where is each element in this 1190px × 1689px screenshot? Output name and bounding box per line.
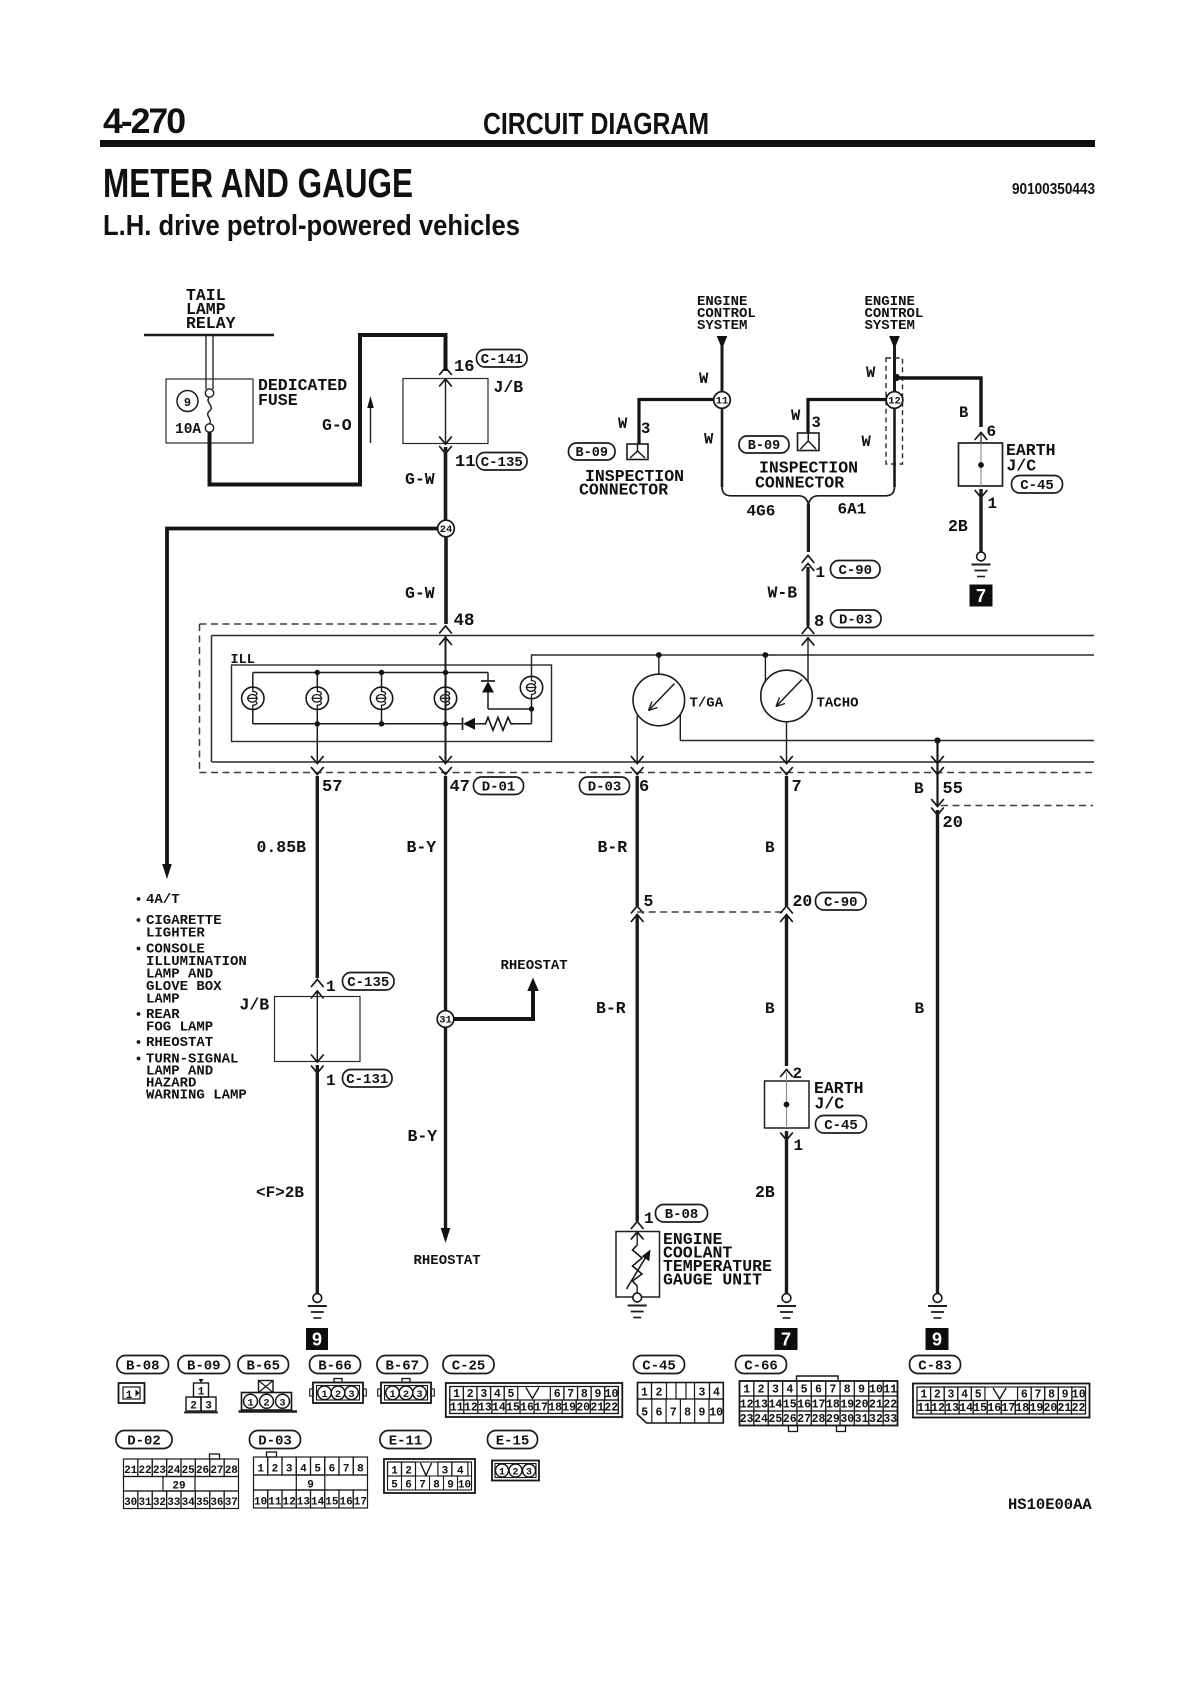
dedicated fuse box <box>166 379 253 443</box>
wire B-R below C-90 <box>636 916 639 1221</box>
svg-text:B-09: B-09 <box>748 439 780 454</box>
svg-text:5: 5 <box>314 1464 321 1476</box>
svg-text:31: 31 <box>855 1413 869 1426</box>
svg-text:90100350443: 90100350443 <box>1012 181 1095 198</box>
C-131 exit arrows <box>311 1055 324 1063</box>
svg-text:9: 9 <box>698 1407 705 1420</box>
svg-text:35: 35 <box>196 1497 210 1509</box>
svg-text:4G6: 4G6 <box>747 503 776 521</box>
wire G-W from J/B to node 24 <box>444 447 448 521</box>
svg-text:B: B <box>765 839 775 857</box>
svg-text:T/GA: T/GA <box>690 696 724 712</box>
svg-text:W: W <box>704 431 714 449</box>
svg-text:C-90: C-90 <box>824 895 858 911</box>
J/B exit arrows C-135 <box>439 437 452 445</box>
connector B-08 drawing <box>119 1383 145 1403</box>
svg-text:12: 12 <box>283 1497 296 1509</box>
connector B-65 drawing <box>259 1381 274 1393</box>
ground symbol mid <box>782 1294 791 1303</box>
svg-text:D-03: D-03 <box>588 779 622 795</box>
wire B pin7 down <box>785 776 788 906</box>
meter cluster solid box <box>212 635 1095 637</box>
svg-text:<F>2B: <F>2B <box>256 1184 304 1202</box>
svg-text:7: 7 <box>781 1330 791 1350</box>
svg-text:1: 1 <box>644 1210 654 1228</box>
connector B-09 label <box>178 1356 230 1374</box>
svg-text:31: 31 <box>439 1015 452 1027</box>
wire node24 to other systems (left drop) <box>167 529 438 867</box>
svg-text:J/B: J/B <box>240 996 270 1015</box>
svg-text:21: 21 <box>590 1402 604 1415</box>
svg-text:6: 6 <box>639 778 649 797</box>
svg-text:18: 18 <box>826 1399 840 1412</box>
svg-text:B-R: B-R <box>598 838 628 857</box>
svg-text:SYSTEM: SYSTEM <box>865 318 915 334</box>
connector B-09 drawing <box>199 1379 204 1383</box>
connector C-83 label <box>910 1356 961 1374</box>
svg-text:16: 16 <box>454 358 474 377</box>
dashed connector pass-through box <box>886 358 903 464</box>
svg-text:C-25: C-25 <box>452 1358 486 1374</box>
svg-text:CONNECTOR: CONNECTOR <box>755 474 844 493</box>
illumination lamp 4 <box>434 687 456 709</box>
wire node11 to inspection connector B-09 no1 <box>639 400 714 444</box>
svg-text:B-65: B-65 <box>246 1358 280 1374</box>
svg-text:19: 19 <box>840 1399 854 1412</box>
svg-text:G-W: G-W <box>405 584 435 603</box>
svg-text:3: 3 <box>641 420 650 438</box>
svg-text:3: 3 <box>812 414 821 432</box>
svg-text:1: 1 <box>326 1072 336 1090</box>
svg-text:27: 27 <box>797 1413 811 1426</box>
pin 8 entry arrows <box>802 627 815 635</box>
svg-text:4: 4 <box>494 1388 501 1401</box>
svg-text:13: 13 <box>478 1402 492 1415</box>
connector C-90 label 2 <box>816 893 867 911</box>
svg-text:4-270: 4-270 <box>103 102 186 141</box>
svg-text:B: B <box>915 1000 925 1018</box>
svg-text:HS10E00AA: HS10E00AA <box>1008 1496 1092 1514</box>
junction dot lower bus <box>934 737 940 743</box>
svg-text:10: 10 <box>869 1384 883 1397</box>
wire node12 down to brace <box>893 408 896 487</box>
svg-text:17: 17 <box>1001 1402 1015 1415</box>
svg-text:8: 8 <box>844 1384 851 1397</box>
svg-text:J/C: J/C <box>815 1095 845 1114</box>
svg-text:7: 7 <box>829 1384 836 1397</box>
svg-text:L.H. drive petrol-powered vehi: L.H. drive petrol-powered vehicles <box>103 210 520 242</box>
ground ref black box 9 right <box>926 1328 949 1350</box>
svg-text:W: W <box>862 433 872 451</box>
svg-text:20: 20 <box>576 1402 590 1415</box>
ground ref black box 7 bottom <box>775 1328 798 1350</box>
svg-text:22: 22 <box>604 1402 618 1415</box>
svg-text:1: 1 <box>988 495 998 513</box>
svg-text:2: 2 <box>758 1384 765 1397</box>
connector C-90 label <box>831 561 881 579</box>
ground symbol under ECT unit <box>633 1293 642 1302</box>
svg-text:16: 16 <box>340 1497 353 1509</box>
svg-text:W: W <box>699 370 709 388</box>
fuse number circle 9 <box>177 391 198 412</box>
svg-text:B-09: B-09 <box>187 1358 221 1374</box>
pin 20 arrows into C-83 <box>931 799 944 807</box>
svg-text:7: 7 <box>976 586 986 606</box>
svg-text:20: 20 <box>793 892 813 911</box>
svg-text:32: 32 <box>869 1413 883 1426</box>
svg-text:9: 9 <box>932 1330 942 1350</box>
svg-text:0.85B: 0.85B <box>257 838 307 857</box>
pin 48 entry arrows <box>439 626 452 634</box>
engine coolant temperature gauge unit box <box>616 1232 660 1298</box>
exit arrows pin 7 <box>780 756 793 764</box>
svg-text:8: 8 <box>433 1480 440 1492</box>
connector B-65 label <box>238 1356 289 1374</box>
wire G-W node24 to combination meter pin 48 <box>444 537 448 624</box>
svg-text:2: 2 <box>263 1397 269 1409</box>
svg-text:9: 9 <box>858 1384 865 1397</box>
svg-text:3: 3 <box>480 1388 487 1401</box>
svg-text:15: 15 <box>973 1402 987 1415</box>
illumination lamp 2 <box>316 673 318 688</box>
svg-text:C-66: C-66 <box>744 1358 778 1374</box>
wire fuse output G-O <box>210 335 446 485</box>
svg-text:12: 12 <box>931 1402 945 1415</box>
svg-text:9: 9 <box>447 1480 454 1492</box>
svg-text:3: 3 <box>699 1387 706 1400</box>
wire 2B to ground left <box>316 1065 319 1294</box>
svg-text:2B: 2B <box>948 517 968 536</box>
svg-text:7: 7 <box>670 1407 677 1420</box>
svg-text:3: 3 <box>348 1389 354 1401</box>
connector C-45 label bottom <box>634 1356 685 1374</box>
svg-text:5: 5 <box>641 1407 648 1420</box>
wire B to earth JC C-45 <box>896 378 981 427</box>
connector D-01 label <box>474 777 524 795</box>
svg-text:10: 10 <box>458 1480 471 1492</box>
svg-text:2: 2 <box>467 1388 474 1401</box>
svg-text:J/C: J/C <box>1007 457 1037 476</box>
svg-text:16: 16 <box>520 1402 534 1415</box>
connector C-83 drawing <box>913 1384 1090 1418</box>
svg-text:9: 9 <box>594 1388 601 1401</box>
svg-text:RHEOSTAT: RHEOSTAT <box>501 958 568 974</box>
svg-text:12: 12 <box>740 1399 754 1412</box>
connector D-02 drawing <box>210 1454 220 1459</box>
connector C-45 label 2 <box>816 1116 867 1134</box>
lamp top bus <box>253 672 488 674</box>
svg-text:11: 11 <box>455 453 475 472</box>
connector B-67 drawing <box>402 1379 410 1383</box>
ground ref black box 7 <box>970 585 993 607</box>
connector C-131 label <box>343 1070 393 1088</box>
connector D-03 label <box>250 1431 301 1449</box>
svg-text:20: 20 <box>943 814 963 833</box>
wire 0.85B pin57 down <box>316 776 319 978</box>
svg-text:C-135: C-135 <box>481 455 523 471</box>
svg-text:11: 11 <box>450 1402 464 1415</box>
svg-text:C-90: C-90 <box>838 563 872 579</box>
svg-text:23: 23 <box>740 1413 754 1426</box>
flow direction arrow up <box>370 403 372 443</box>
junction block J/B connector arrows C-141 <box>439 368 452 376</box>
svg-text:B-67: B-67 <box>385 1358 419 1374</box>
svg-text:26: 26 <box>783 1413 797 1426</box>
wire to node 11 <box>721 346 724 392</box>
lamp bottom bus <box>253 723 463 725</box>
internal bus from illumination to gauges <box>532 655 1095 677</box>
svg-text:3: 3 <box>205 1401 212 1413</box>
connector E-11 drawing <box>384 1459 475 1493</box>
svg-text:13: 13 <box>754 1399 768 1412</box>
svg-text:LAMP: LAMP <box>146 992 180 1008</box>
connector D-03 label bottom <box>580 777 630 795</box>
svg-text:B-08: B-08 <box>665 1207 699 1223</box>
tachometer TACHO <box>763 652 769 658</box>
svg-text:W: W <box>866 364 876 382</box>
fuse element symbol <box>205 389 213 397</box>
svg-text:2B: 2B <box>755 1183 775 1202</box>
wire to node 12 <box>893 346 896 392</box>
svg-text:14: 14 <box>492 1402 506 1415</box>
svg-text:W: W <box>791 407 801 425</box>
svg-text:1: 1 <box>247 1397 253 1409</box>
svg-text:E-11: E-11 <box>389 1433 423 1449</box>
connector D-03 drawing <box>267 1452 277 1457</box>
svg-text:ILL: ILL <box>231 653 255 668</box>
connector C-66 drawing <box>797 1376 839 1380</box>
svg-text:1: 1 <box>920 1388 927 1401</box>
svg-text:23: 23 <box>153 1465 167 1477</box>
svg-text:3: 3 <box>286 1464 293 1476</box>
svg-text:B-08: B-08 <box>126 1358 160 1374</box>
svg-text:33: 33 <box>883 1413 897 1426</box>
svg-text:4A/T: 4A/T <box>146 892 180 908</box>
svg-text:20: 20 <box>855 1399 869 1412</box>
svg-text:2: 2 <box>934 1388 941 1401</box>
svg-text:4: 4 <box>300 1464 307 1476</box>
inspection connector symbol 1 <box>627 444 648 460</box>
svg-text:25: 25 <box>769 1413 783 1426</box>
connector B-66 drawing <box>334 1379 342 1383</box>
svg-text:57: 57 <box>322 778 342 797</box>
svg-text:4: 4 <box>786 1384 793 1397</box>
svg-text:G-W: G-W <box>405 470 435 489</box>
svg-text:2: 2 <box>403 1389 409 1401</box>
svg-text:11: 11 <box>917 1402 931 1415</box>
connector B-66 label <box>310 1356 361 1374</box>
relay contact wires <box>205 335 207 389</box>
svg-text:12: 12 <box>888 396 901 408</box>
TACHO pin7 stub <box>786 722 788 762</box>
connector C-25 drawing <box>446 1383 623 1417</box>
svg-text:27: 27 <box>210 1465 223 1477</box>
connector E-11 label <box>380 1431 431 1449</box>
svg-text:1: 1 <box>257 1464 264 1476</box>
svg-text:6A1: 6A1 <box>838 501 867 519</box>
svg-text:E-15: E-15 <box>496 1433 530 1449</box>
svg-text:11: 11 <box>716 396 729 408</box>
C-90 crossing arrows pin 20 <box>780 906 793 914</box>
junction block J/B box <box>403 379 488 444</box>
svg-text:10: 10 <box>1072 1388 1086 1401</box>
earth JC entry arrow pin 6 <box>975 433 988 441</box>
variable resistor arrow <box>627 1256 647 1289</box>
diode vertical <box>487 673 489 682</box>
svg-text:32: 32 <box>153 1497 166 1509</box>
svg-text:RHEOSTAT: RHEOSTAT <box>146 1035 213 1051</box>
svg-text:10: 10 <box>254 1497 267 1509</box>
svg-text:6: 6 <box>656 1407 663 1420</box>
connector E-15 label <box>488 1431 538 1449</box>
svg-text:D-01: D-01 <box>482 779 516 795</box>
wire through cluster pin48 to pin47 <box>445 636 447 763</box>
svg-text:METER AND GAUGE: METER AND GAUGE <box>103 160 413 206</box>
wire insp connector 2 to node 12 <box>808 400 886 434</box>
svg-text:3: 3 <box>416 1389 422 1401</box>
connector C-135 label <box>477 453 528 471</box>
svg-text:1: 1 <box>499 1468 505 1479</box>
svg-text:6: 6 <box>405 1480 412 1492</box>
svg-text:CONNECTOR: CONNECTOR <box>579 481 668 500</box>
svg-text:14: 14 <box>959 1402 973 1415</box>
svg-text:10: 10 <box>605 1388 619 1401</box>
svg-text:19: 19 <box>1029 1402 1043 1415</box>
svg-text:22: 22 <box>138 1465 151 1477</box>
resistor <box>483 717 514 730</box>
connector C-45 drawing <box>638 1383 724 1424</box>
svg-text:2: 2 <box>656 1387 663 1400</box>
svg-text:WARNING LAMP: WARNING LAMP <box>146 1088 247 1104</box>
svg-text:C-135: C-135 <box>347 975 389 991</box>
T/GA right stub to lower bus <box>679 715 681 741</box>
svg-text:24: 24 <box>440 524 453 536</box>
svg-text:29: 29 <box>826 1413 840 1426</box>
connector C-141 label <box>477 350 528 368</box>
svg-text:2: 2 <box>272 1464 279 1476</box>
svg-text:6: 6 <box>329 1464 336 1476</box>
earth JC exit arrow pin 1 <box>975 490 988 498</box>
svg-text:6: 6 <box>987 423 997 441</box>
svg-text:RELAY: RELAY <box>186 314 236 333</box>
other-systems list <box>137 897 141 901</box>
ILL lamp group box <box>232 665 552 742</box>
svg-text:1: 1 <box>126 1390 133 1402</box>
wire B-Y pin47 down <box>444 776 447 1011</box>
svg-text:6: 6 <box>554 1388 561 1401</box>
svg-text:16: 16 <box>797 1399 811 1412</box>
svg-text:28: 28 <box>225 1465 239 1477</box>
svg-text:C-83: C-83 <box>918 1358 952 1374</box>
svg-text:48: 48 <box>454 611 475 631</box>
svg-text:47: 47 <box>450 778 470 797</box>
svg-text:11: 11 <box>268 1497 282 1509</box>
svg-text:21: 21 <box>869 1399 883 1412</box>
wire B pin20 down to ground <box>936 810 939 1294</box>
header rule <box>100 140 1095 147</box>
svg-text:19: 19 <box>562 1402 576 1415</box>
svg-text:B-66: B-66 <box>318 1358 352 1374</box>
svg-text:15: 15 <box>783 1399 797 1412</box>
svg-text:B: B <box>959 404 968 422</box>
svg-text:3: 3 <box>948 1388 955 1401</box>
wire W-B from brace down <box>807 504 810 552</box>
svg-text:5: 5 <box>644 892 654 911</box>
svg-text:55: 55 <box>943 780 963 799</box>
arrow from engine control system 2 <box>889 336 900 349</box>
earth JC box C-45 <box>959 443 1003 486</box>
C-90 crossing arrows pin 5 <box>631 906 644 914</box>
illumination lamp 3 <box>381 673 383 688</box>
svg-text:14: 14 <box>769 1399 783 1412</box>
junction dot right of node 12 <box>893 374 900 381</box>
wire node11 down to brace <box>721 408 724 487</box>
exit arrows pin 57 <box>316 724 318 762</box>
svg-text:5: 5 <box>975 1388 982 1401</box>
node 12 <box>886 392 903 409</box>
meter cluster C-83 dashed segment <box>941 805 1093 807</box>
svg-text:3: 3 <box>526 1468 532 1479</box>
svg-text:17: 17 <box>812 1399 826 1412</box>
fuel/temp gauge T/GA <box>656 652 662 658</box>
svg-text:17: 17 <box>534 1402 548 1415</box>
svg-text:8: 8 <box>581 1388 588 1401</box>
connector B-09 label 1 <box>569 443 616 460</box>
svg-text:6: 6 <box>815 1384 822 1397</box>
svg-text:C-45: C-45 <box>1020 478 1054 494</box>
svg-text:D-03: D-03 <box>839 612 873 628</box>
svg-text:21: 21 <box>1058 1402 1072 1415</box>
svg-text:G-O: G-O <box>322 416 352 435</box>
ground symbol left <box>313 1294 322 1303</box>
svg-text:11: 11 <box>883 1384 897 1397</box>
svg-text:21: 21 <box>124 1465 138 1477</box>
svg-text:8: 8 <box>684 1407 691 1420</box>
earth JC 2 exit arrow pin 1 <box>780 1133 793 1141</box>
svg-text:TACHO: TACHO <box>817 696 859 712</box>
svg-text:8: 8 <box>357 1464 364 1476</box>
svg-text:10A: 10A <box>175 422 201 438</box>
wire to rheostat <box>454 990 533 1019</box>
svg-text:34: 34 <box>182 1497 196 1509</box>
tail lamp relay bus bar <box>144 334 274 337</box>
svg-text:D-03: D-03 <box>258 1433 292 1449</box>
internal bus lower <box>680 740 1094 742</box>
svg-text:W: W <box>618 415 628 433</box>
connector C-66 label <box>736 1356 787 1374</box>
svg-text:C-45: C-45 <box>824 1118 858 1134</box>
svg-text:GAUGE UNIT: GAUGE UNIT <box>663 1271 762 1290</box>
svg-text:8: 8 <box>814 613 824 632</box>
svg-text:6: 6 <box>1021 1388 1028 1401</box>
earth JC box C-45 no2 <box>765 1081 810 1128</box>
svg-text:26: 26 <box>196 1465 209 1477</box>
ground symbol top right <box>977 552 986 561</box>
ground symbol right <box>933 1294 942 1303</box>
svg-text:28: 28 <box>812 1413 826 1426</box>
svg-text:14: 14 <box>311 1497 325 1509</box>
svg-text:37: 37 <box>225 1497 238 1509</box>
svg-text:17: 17 <box>354 1497 367 1509</box>
node 24 <box>438 520 455 537</box>
connector D-02 label <box>116 1431 172 1449</box>
connector E-15 drawing <box>492 1461 539 1481</box>
illumination lamp 1 <box>252 673 254 688</box>
exit arrows pin 47 <box>439 756 452 764</box>
svg-text:10: 10 <box>709 1407 723 1420</box>
svg-text:7: 7 <box>792 778 802 797</box>
wire 2B to ground <box>979 489 982 552</box>
